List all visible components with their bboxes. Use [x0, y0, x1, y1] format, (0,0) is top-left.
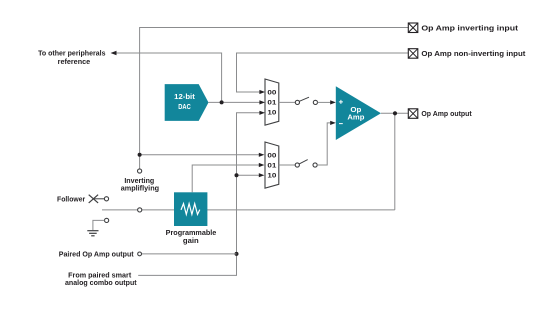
- node: inverting ampliflying terminal circle: [138, 169, 142, 173]
- svg-text:Paired Op Amp output: Paired Op Amp output: [59, 249, 134, 258]
- switch S1 (upper mux to op amp +): [279, 97, 331, 104]
- svg-text:10: 10: [267, 110, 276, 117]
- mux M2 (lower): [265, 142, 279, 188]
- label: inverting ampliflying: [121, 176, 160, 193]
- arrowhead: into upper mux 01: [259, 100, 265, 104]
- label: from paired smart analog combo output: [65, 270, 137, 287]
- junction: DAC output / reference: [220, 100, 224, 104]
- wire: paired op amp output: [142, 253, 237, 255]
- arrowhead: into op amp -: [330, 121, 336, 125]
- svg-text:10: 10: [267, 173, 276, 180]
- wire: op amp output: [381, 112, 408, 114]
- follower disconnect X: [89, 195, 105, 203]
- arrowhead: into upper mux 10: [259, 111, 265, 115]
- programmable gain R1: [174, 192, 207, 226]
- svg-text:00: 00: [267, 153, 276, 160]
- node: follower throw circle: [104, 197, 108, 201]
- svg-text:analog combo output: analog combo output: [65, 278, 137, 287]
- svg-text:01: 01: [267, 100, 276, 107]
- wire: lower mux 01 from programmable gain: [192, 165, 259, 192]
- wire: programmable gain line: [102, 209, 395, 211]
- mux M1 (upper): [265, 79, 279, 125]
- wire: to other peripherals reference (from DAC output): [116, 53, 222, 102]
- svg-text:reference: reference: [58, 57, 91, 66]
- wire: op amp non-inverting input net: [237, 53, 409, 92]
- wire: branch to lower mux 00: [140, 154, 260, 156]
- svg-text:00: 00: [267, 90, 276, 97]
- wire: to ground: [93, 220, 105, 230]
- ground: [87, 231, 98, 236]
- arrowhead: into op amp +: [330, 100, 336, 104]
- svg-text:To other peripherals: To other peripherals: [38, 48, 105, 57]
- label: to other peripherals reference: [38, 48, 105, 66]
- svg-text:DAC: DAC: [178, 102, 191, 111]
- wire: lower switch to op amp inverting input: [317, 123, 331, 165]
- switch S2 (lower mux to op amp -): [279, 160, 317, 167]
- junction: op amp output node: [393, 111, 397, 115]
- svg-text:ampliflying: ampliflying: [121, 184, 160, 193]
- label: paired op amp output: [59, 249, 134, 258]
- pin: Op Amp inverting input: [408, 23, 518, 33]
- op-amp U2: [336, 86, 381, 140]
- pin: Op Amp output: [408, 109, 472, 119]
- wire: DAC output to upper mux 01: [209, 101, 260, 103]
- arrowhead: into lower mux 10: [259, 173, 265, 177]
- label: programmable gain: [166, 228, 217, 245]
- node: follower tap circle on gain line: [138, 208, 142, 212]
- junction: lower mux 10 tap: [235, 173, 239, 177]
- svg-text:Op Amp output: Op Amp output: [421, 109, 472, 118]
- svg-text:Amp: Amp: [347, 112, 364, 121]
- node: ground throw circle: [105, 218, 109, 222]
- wire: paired smart analog net vertical to upper mux 10: [138, 113, 259, 276]
- arrowhead: into upper mux 00: [259, 90, 265, 94]
- dac U1: 12-bit DAC: [165, 84, 209, 121]
- svg-text:Follower: Follower: [57, 195, 85, 204]
- wire: feedback from output down to gain line: [394, 113, 396, 210]
- node: paired op amp output terminal: [138, 252, 142, 256]
- svg-text:01: 01: [267, 163, 276, 170]
- wire: op amp inverting input net (top): [140, 28, 409, 170]
- svg-text:12-bit: 12-bit: [174, 92, 195, 101]
- junction: paired op amp output tap: [235, 252, 239, 256]
- wire: lower mux 10 branch: [237, 174, 260, 176]
- pin: Op Amp non-inverting input: [408, 49, 526, 59]
- arrowhead: into lower mux 01: [259, 163, 265, 167]
- svg-text:gain: gain: [183, 236, 199, 245]
- label: follower: [57, 195, 85, 204]
- arrowhead: into lower mux 00: [259, 153, 265, 157]
- junction on inverting net: [138, 153, 142, 157]
- svg-text:Op Amp non-inverting input: Op Amp non-inverting input: [421, 49, 526, 58]
- svg-text:Op Amp inverting input: Op Amp inverting input: [421, 23, 518, 32]
- arrowhead: to other peripherals: [111, 51, 117, 55]
